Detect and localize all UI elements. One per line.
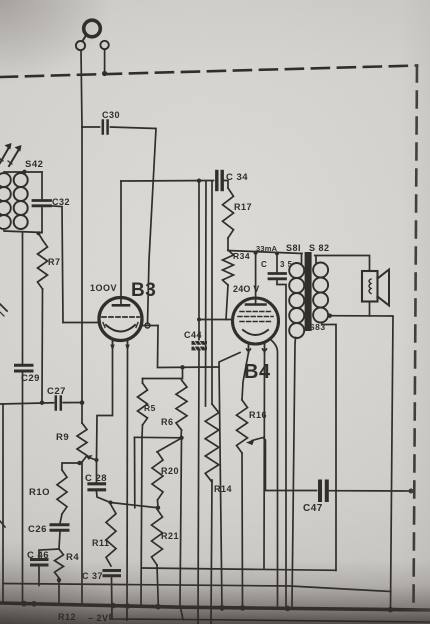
wire C30 to node <box>111 127 157 324</box>
wire diagonal to R20 <box>157 438 182 452</box>
wire C27 to node <box>63 402 82 404</box>
label C44 <box>184 330 202 340</box>
wire branch to C46 <box>39 549 59 558</box>
node bus 7 <box>240 605 246 611</box>
wire R9 to bus <box>81 462 83 604</box>
label 240V <box>233 284 260 294</box>
wire C32 to grid <box>51 206 64 323</box>
wire B3 pin2 to bus <box>126 350 129 620</box>
wire C26 down <box>59 532 60 550</box>
wire to C30 <box>82 126 100 128</box>
wiper arrow R9 <box>86 455 98 461</box>
resistor R21 <box>152 509 163 565</box>
resistor R4 <box>55 549 64 578</box>
label C29 <box>21 373 40 384</box>
antenna socket right <box>100 41 108 49</box>
wire coil to C29 <box>22 233 24 364</box>
inductor L2 (right winding) <box>14 173 28 229</box>
wire dashed border (right) <box>414 66 418 612</box>
wire B3 grid feed <box>63 322 100 324</box>
B3 grid <box>102 316 139 318</box>
node anode junction <box>254 251 258 255</box>
label C26 <box>28 524 47 535</box>
node R6 bottom <box>179 436 183 440</box>
wire C46 down <box>38 567 40 586</box>
wire B4 pin2 down <box>263 353 266 569</box>
resistor R7 <box>38 233 48 289</box>
wire wiper to C47 <box>266 490 317 492</box>
node R7/C27 <box>40 401 44 405</box>
node R6 top <box>180 365 184 369</box>
label S42 <box>25 159 43 170</box>
wire R5 bottom <box>141 425 144 438</box>
wire bottom line B <box>3 584 391 592</box>
wire B4 grid line <box>199 319 233 321</box>
wire node to R9 <box>81 403 83 423</box>
node on dashed border <box>102 71 107 76</box>
B4 heater pin 2 <box>263 344 267 353</box>
wire C27 line <box>0 403 54 404</box>
capacitor C29 <box>16 365 33 371</box>
node bus 5 <box>155 604 161 610</box>
wire C28 feed <box>96 460 98 482</box>
wire C47 right <box>329 490 411 492</box>
label R10 <box>29 487 50 498</box>
wire coil top <box>4 171 42 173</box>
label S83 <box>309 322 326 332</box>
wire R11-R21 rail <box>111 503 159 508</box>
wire middle vertical <box>205 181 208 406</box>
wire B4 pin1 to R16 <box>242 353 249 401</box>
wire C34 to R17 <box>224 181 228 189</box>
label R16 <box>249 410 267 420</box>
wire C35 down <box>277 280 286 605</box>
label C46 <box>27 550 49 561</box>
label R17 <box>234 202 252 212</box>
label C28 <box>85 473 107 484</box>
wire rail corner down <box>134 437 136 507</box>
B4 grid 1 <box>240 311 272 313</box>
wire annotation -2V <box>110 615 430 623</box>
pentode B4 envelope <box>233 298 279 344</box>
wire C28 to R11 <box>97 492 111 503</box>
wire R5 line down <box>141 438 142 605</box>
node B3 output <box>145 323 150 328</box>
resistor R14 <box>205 404 219 482</box>
resistor R16 <box>237 400 248 453</box>
wire output down <box>158 326 220 368</box>
label R7 <box>48 257 61 267</box>
label C32 <box>52 197 70 207</box>
B3 heater pin 1 <box>110 340 114 351</box>
wire bottom line A <box>142 568 336 570</box>
wire R6 line down <box>180 438 183 620</box>
wire S42 box right <box>41 172 43 199</box>
node grid/C44 <box>197 318 201 322</box>
node bus 4 <box>125 603 131 609</box>
transformer primary <box>289 263 304 338</box>
node C35 junction <box>275 251 279 255</box>
wire left edge vertical <box>2 404 4 603</box>
wire plug tail <box>83 35 87 42</box>
wire primary bottom <box>292 338 296 607</box>
label R4 <box>66 552 79 563</box>
wire ground bus <box>0 603 430 610</box>
node bus 9 <box>388 607 394 613</box>
antenna terminal plug <box>84 20 101 37</box>
trimmer C44 <box>192 341 208 352</box>
label C30 <box>102 110 120 120</box>
wire R16 to bus <box>241 453 244 605</box>
B4 anode bar <box>246 303 266 306</box>
label 100V <box>90 283 117 293</box>
node R11 top <box>109 501 113 505</box>
capacitor C35 <box>269 274 286 279</box>
capacitor C46 <box>32 560 48 566</box>
wire R21 to bus <box>157 565 158 606</box>
wire C37 to bus <box>111 578 114 619</box>
wire C35 feed <box>276 253 278 272</box>
label B4 <box>244 361 271 383</box>
capacitor C32 <box>33 201 51 206</box>
resistor R34 <box>223 250 234 285</box>
loudspeaker cone <box>378 270 390 306</box>
node C28 top <box>95 458 99 462</box>
label S81 <box>286 243 301 253</box>
B3 cathode <box>103 323 138 332</box>
node bus 6 <box>219 605 225 611</box>
node R9 bottom <box>77 461 81 465</box>
wire speaker bottom stub <box>369 302 371 316</box>
wire dashed border (top) <box>0 66 417 78</box>
B3 heater pin 2 <box>125 340 129 351</box>
label R34 <box>233 251 250 261</box>
capacitor C28 <box>89 484 105 490</box>
resistor R17 <box>223 188 234 238</box>
B4 heater pin 1 <box>247 344 251 353</box>
wire speaker bottom line <box>330 316 393 607</box>
label C34 <box>226 172 248 183</box>
label -2V <box>88 613 109 623</box>
page mark left 2 <box>0 521 5 527</box>
wire antenna down <box>81 50 82 402</box>
label B3 <box>131 280 156 301</box>
node C47 end <box>409 489 414 494</box>
resistor R11 <box>106 505 116 566</box>
wire primary top <box>301 254 303 265</box>
wire R9 to R10 <box>62 463 80 470</box>
wire B3 output <box>142 325 158 327</box>
capacitor C26 <box>51 525 68 531</box>
resistor R9 <box>77 423 87 462</box>
tuning arrow 2 <box>8 145 22 166</box>
node coil top <box>22 170 26 174</box>
label S82 <box>309 243 330 253</box>
wire secondary top <box>315 256 370 272</box>
capacitor C27 <box>56 397 61 410</box>
label R21 <box>161 531 179 541</box>
B4 grid 2 <box>238 316 273 318</box>
label R11 <box>92 538 110 548</box>
node speaker tap <box>328 314 332 318</box>
antenna socket left <box>76 41 85 50</box>
tuning arrow 1 <box>0 143 12 163</box>
wire anode to C34 <box>121 180 214 183</box>
label 33mA <box>256 244 278 253</box>
node bus 8 <box>285 606 291 612</box>
wire coil bottom <box>4 231 42 233</box>
node coil bottom <box>36 231 40 235</box>
wire R14 to bus <box>211 480 212 624</box>
B4 grid 3 <box>240 321 272 323</box>
label R6 <box>161 417 174 427</box>
capacitor C30 <box>103 121 108 134</box>
node bus 1 <box>21 601 27 607</box>
wire R5R6 top <box>143 367 183 378</box>
wiper arrow R16 <box>246 438 266 491</box>
wire B3 anode feed <box>120 181 122 304</box>
wire B4 cathode lead <box>219 353 240 611</box>
wire R6 bottom <box>180 430 183 438</box>
B3 anode <box>113 304 129 307</box>
transformer secondary <box>313 263 328 323</box>
label R9 <box>56 432 69 443</box>
wire C44 down <box>198 351 199 624</box>
capacitor C37 <box>104 571 120 576</box>
page mark left 1 <box>0 304 7 316</box>
resistor R10 <box>57 470 67 514</box>
wire R34 to grid <box>226 285 228 320</box>
label R12 <box>58 612 76 622</box>
wire R17-R34 <box>227 238 229 250</box>
label R14 <box>214 484 232 494</box>
wire C44 vertical <box>198 181 200 341</box>
triode B3 envelope <box>99 298 142 341</box>
wire C32 to box bottom <box>41 208 43 233</box>
label C35 <box>261 260 293 269</box>
capacitor C34 <box>217 172 222 190</box>
wire R10 to C26 <box>60 514 62 524</box>
node bus 3 <box>110 603 116 609</box>
resistor R5 <box>138 379 148 426</box>
inductor L1 (left winding) <box>0 173 11 229</box>
node R20/R21 <box>156 506 160 510</box>
node C44 line top <box>197 179 201 183</box>
label R20 <box>161 466 179 476</box>
node C27/aerial <box>80 400 85 405</box>
node bus 2 <box>31 601 37 607</box>
node R4 bottom <box>57 578 61 582</box>
label R5 <box>144 403 156 413</box>
wire secondary bottom <box>322 323 336 571</box>
B4 cathode <box>243 330 268 335</box>
wire R14 feed <box>211 181 213 404</box>
loudspeaker coil box <box>362 271 378 302</box>
wire 33mA line <box>228 251 302 254</box>
wire R20 bottom <box>157 500 160 508</box>
wire socket right stub <box>104 49 106 71</box>
wire C29 down <box>22 373 24 604</box>
wire R5R6 bottom rail <box>135 436 182 439</box>
wire R7 down <box>41 289 44 403</box>
resistor R20 <box>152 452 163 500</box>
wire R4 to bus <box>58 580 60 604</box>
label C37 <box>82 571 103 581</box>
wire B3 pin to C28 <box>97 350 113 460</box>
wire B4 side lead <box>270 339 278 606</box>
label C47 <box>303 503 323 514</box>
capacitor C47 <box>320 482 327 501</box>
label C27 <box>47 386 66 397</box>
wire B4 anode <box>255 253 257 304</box>
resistor R6 <box>176 380 187 430</box>
transformer core <box>305 252 312 331</box>
